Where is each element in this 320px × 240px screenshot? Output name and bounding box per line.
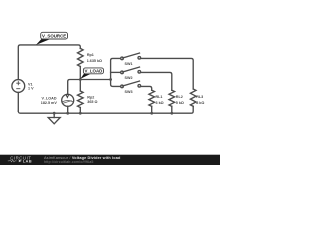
svg-text:5 kΩ: 5 kΩ xyxy=(176,101,184,105)
resistor RL2 xyxy=(169,90,175,106)
switch SW1 xyxy=(121,57,124,60)
svg-text:Rp1: Rp1 xyxy=(87,53,94,57)
flag V_SOURCE xyxy=(36,32,68,45)
node voltmeter-rail junction xyxy=(66,112,69,115)
footer bar xyxy=(0,155,220,165)
wire voltmeter bottom lead xyxy=(67,106,69,113)
svg-text:LAB: LAB xyxy=(23,159,32,164)
resistor Rp2 xyxy=(79,80,81,92)
resistor Rp1 xyxy=(78,48,84,66)
ground xyxy=(53,113,55,117)
svg-text:RL2: RL2 xyxy=(176,95,183,99)
wire top rail xyxy=(18,45,80,80)
wire bottom rail xyxy=(18,106,193,113)
wire V1 bottom xyxy=(17,92,19,111)
svg-text:182.5 mV: 182.5 mV xyxy=(41,101,58,105)
wire switch bus vertical xyxy=(111,58,121,86)
svg-text:SW2: SW2 xyxy=(125,76,133,80)
wire node to switch bus xyxy=(80,79,110,81)
svg-text:8 kΩ: 8 kΩ xyxy=(196,101,204,105)
svg-text:1 V: 1 V xyxy=(28,87,34,91)
node RL1-rail junction xyxy=(150,112,153,115)
wire node to voltmeter xyxy=(68,80,81,95)
svg-text:365 Ω: 365 Ω xyxy=(87,100,97,104)
svg-text:RL3: RL3 xyxy=(196,95,203,99)
node bus junction xyxy=(109,78,112,81)
svg-text:V_LOAD: V_LOAD xyxy=(42,96,57,100)
junction dots xyxy=(53,78,173,115)
svg-text:V_SOURCE: V_SOURCE xyxy=(42,34,66,39)
svg-text:1.635 kΩ: 1.635 kΩ xyxy=(87,59,102,63)
svg-text:SW3: SW3 xyxy=(125,90,133,94)
svg-text:Rp2: Rp2 xyxy=(87,95,94,99)
node ground junction xyxy=(53,112,56,115)
node RL2-rail junction xyxy=(170,112,173,115)
node V_LOAD junction xyxy=(79,78,82,81)
svg-text:RL1: RL1 xyxy=(156,95,163,99)
voltage source V1 xyxy=(12,80,25,93)
resistor RL3 xyxy=(190,89,196,106)
switch SW2 xyxy=(111,71,121,73)
voltmeter V_LOAD meter xyxy=(62,94,74,106)
node Rp2-rail junction xyxy=(79,112,82,115)
svg-text:SW1: SW1 xyxy=(125,62,133,66)
switch SW3 xyxy=(121,85,124,88)
svg-text:http://circuitlab.com/c/fff6a5: http://circuitlab.com/c/fff6a5 xyxy=(44,160,94,164)
svg-text:V_LOAD: V_LOAD xyxy=(84,69,102,74)
svg-text:3 kΩ: 3 kΩ xyxy=(156,101,164,105)
flag V_LOAD xyxy=(80,68,103,79)
resistor RL1 xyxy=(149,90,155,106)
